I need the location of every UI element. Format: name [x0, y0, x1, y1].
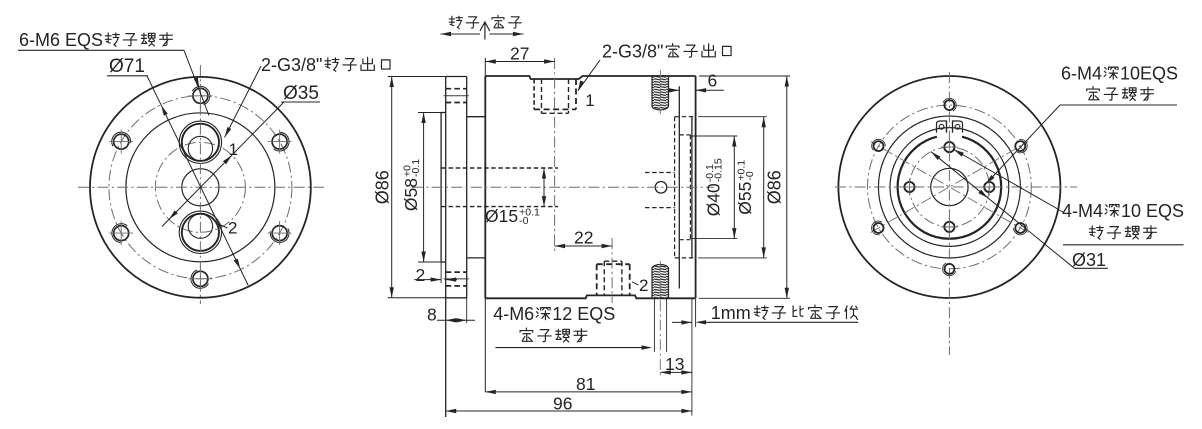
svg-text:Ø58: Ø58: [401, 178, 421, 211]
svg-text:10EQS: 10EQS: [1120, 64, 1178, 84]
svg-text:2: 2: [228, 219, 237, 238]
svg-text:22: 22: [574, 228, 593, 248]
svg-text:6-M6 EQS: 6-M6 EQS: [19, 30, 103, 50]
svg-text:6-M4: 6-M4: [1061, 64, 1102, 84]
svg-text:Ø86: Ø86: [764, 170, 784, 204]
svg-text:1mm: 1mm: [711, 303, 751, 323]
svg-text:Ø15: Ø15: [485, 206, 518, 226]
svg-text:2-G3/8": 2-G3/8": [261, 55, 322, 75]
svg-text:10 EQS: 10 EQS: [1121, 201, 1184, 221]
svg-text:-0.1: -0.1: [410, 159, 422, 177]
svg-text:81: 81: [576, 374, 595, 394]
svg-text:Ø40: Ø40: [704, 183, 724, 216]
svg-text:Ø71: Ø71: [109, 56, 145, 77]
svg-text:Ø86: Ø86: [372, 170, 392, 204]
svg-text:6: 6: [708, 71, 718, 91]
svg-text:-0: -0: [744, 171, 756, 180]
svg-text:Ø31: Ø31: [1072, 250, 1106, 270]
svg-text:Ø35: Ø35: [283, 83, 319, 104]
svg-text:13: 13: [665, 354, 684, 374]
svg-text:1: 1: [229, 140, 238, 159]
svg-text:2: 2: [416, 265, 426, 285]
svg-text:96: 96: [553, 394, 572, 414]
svg-text:1: 1: [585, 91, 594, 110]
svg-text:27: 27: [510, 44, 529, 64]
svg-text:Ø55: Ø55: [735, 182, 755, 215]
svg-text:4-M6: 4-M6: [493, 304, 534, 324]
svg-text:2: 2: [639, 276, 648, 295]
svg-text:-0.15: -0.15: [713, 158, 725, 182]
svg-text:2-G3/8": 2-G3/8": [602, 42, 663, 62]
svg-text:4-M4: 4-M4: [1062, 201, 1103, 221]
svg-text:12 EQS: 12 EQS: [552, 304, 615, 324]
svg-text:8: 8: [427, 305, 437, 325]
svg-text:-0: -0: [519, 215, 528, 227]
